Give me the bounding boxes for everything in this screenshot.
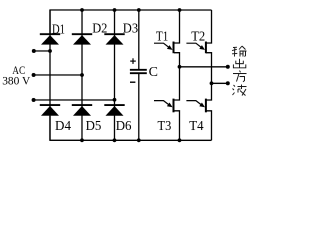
label 输 (output char 1) <box>232 46 247 57</box>
label 出 (output char 2) <box>233 59 245 68</box>
wire top DC+ rail <box>50 10 212 34</box>
node AC phase 1 terminal <box>32 49 36 53</box>
transistor T1 <box>154 42 174 54</box>
diode D5 <box>72 105 92 116</box>
svg-text:T3: T3 <box>157 119 171 134</box>
svg-text:D4: D4 <box>55 119 71 134</box>
label 方 (output char 3) <box>233 71 247 82</box>
node bottom rail D6 <box>113 138 117 142</box>
node bottom rail D5 <box>80 138 84 142</box>
wire AC phase 2 <box>34 74 82 76</box>
diode D6 <box>104 105 124 116</box>
svg-text:D1: D1 <box>52 23 65 38</box>
svg-text:D5: D5 <box>86 119 102 134</box>
transistor T4 <box>186 99 206 113</box>
transistor T3 <box>154 99 174 113</box>
node output terminal 2 <box>226 81 230 85</box>
label 波 (output char 4) <box>232 85 246 96</box>
node top rail D3 <box>113 8 117 12</box>
diode D2 <box>72 34 92 44</box>
svg-text:C: C <box>149 65 158 80</box>
wire T1 emitter / T3 collector <box>174 53 180 100</box>
svg-text:D2: D2 <box>92 22 107 37</box>
svg-text:380 V: 380 V <box>2 74 30 88</box>
wire capacitor leads <box>138 10 140 69</box>
node AC phase 2 terminal <box>32 73 36 77</box>
wire leg 3 (D3/D6) <box>113 10 115 140</box>
node bottom rail C <box>137 138 141 142</box>
node half-bridge A junction <box>178 65 182 69</box>
diode D4 <box>40 105 60 116</box>
wire leg 2 (D2/D5) <box>81 10 83 140</box>
wire AC phase 1 <box>34 50 50 52</box>
wire leg 1 (D1/D4) <box>49 10 51 140</box>
node top rail T1 <box>178 8 182 12</box>
node half-bridge B junction <box>210 81 214 85</box>
wire AC phase 3 <box>34 99 115 101</box>
wire T2 emitter / T4 collector <box>206 53 212 100</box>
wire T1 collector <box>174 10 180 43</box>
wire bottom DC- rail <box>50 116 212 140</box>
capacitor - sign <box>130 81 135 83</box>
wire T4 emitter <box>206 111 212 141</box>
wire output line 1 <box>180 66 228 68</box>
node top rail C <box>137 8 141 12</box>
node phase2-leg2 junction <box>80 73 84 77</box>
capacitor C plates <box>130 70 147 73</box>
node phase1-leg1 junction <box>48 49 52 53</box>
svg-text:T2: T2 <box>191 29 205 44</box>
diode D3 <box>104 34 124 44</box>
svg-text:D3: D3 <box>123 22 138 37</box>
node AC phase 3 terminal <box>32 98 36 102</box>
wire T2 collector <box>206 10 212 43</box>
wire output line 2 <box>211 82 227 84</box>
capacitor + sign <box>130 58 136 64</box>
wire T3 emitter <box>174 111 180 141</box>
svg-text:T1: T1 <box>156 29 168 44</box>
node top rail D2 <box>80 8 84 12</box>
svg-text:D6: D6 <box>116 119 132 134</box>
node phase3-leg3 junction <box>113 98 117 102</box>
diode D1 <box>40 34 60 44</box>
node bottom rail T3 <box>178 138 182 142</box>
transistor T2 <box>186 42 206 54</box>
svg-text:T4: T4 <box>189 119 203 134</box>
node output terminal 1 <box>226 65 230 69</box>
